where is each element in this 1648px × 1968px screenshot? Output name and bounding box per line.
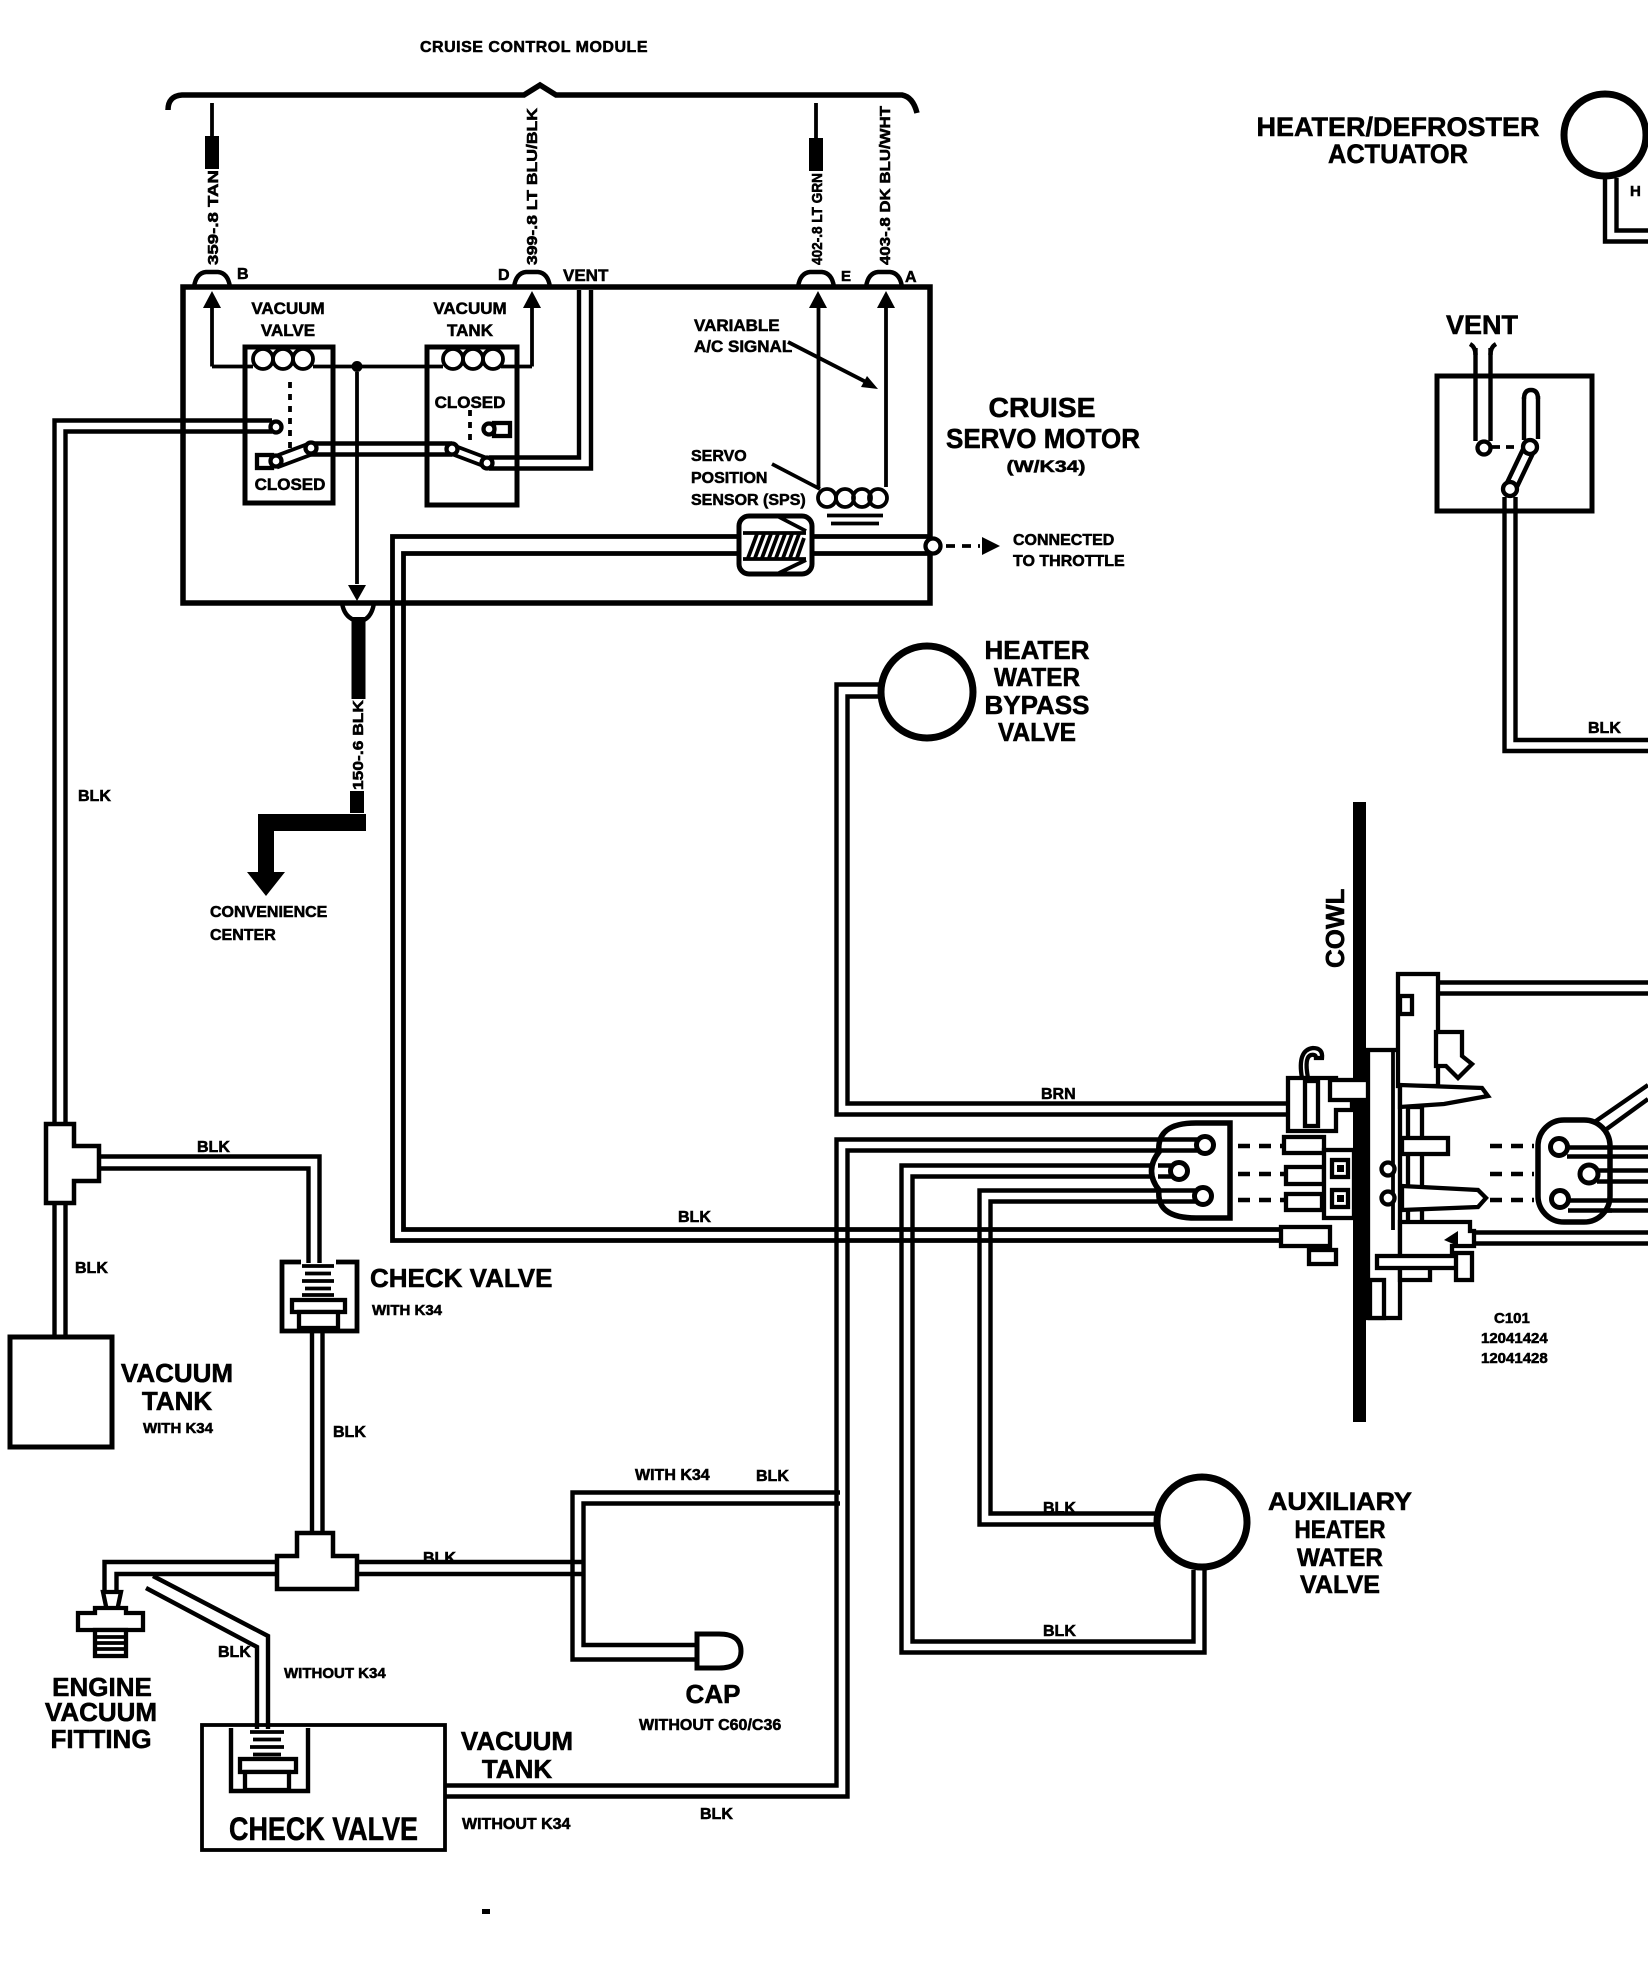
svg-text:WITHOUT K34: WITHOUT K34 (462, 1816, 571, 1833)
svg-text:BLK: BLK (678, 1209, 711, 1226)
svg-text:399-.8 LT BLU/BLK: 399-.8 LT BLU/BLK (524, 108, 541, 265)
svg-text:TANK: TANK (142, 1386, 213, 1416)
svg-text:BLK: BLK (1588, 720, 1621, 737)
svg-text:VACUUM: VACUUM (121, 1358, 233, 1388)
svg-text:TO THROTTLE: TO THROTTLE (1013, 553, 1125, 570)
svg-text:TANK: TANK (447, 321, 494, 340)
svg-text:(W/K34): (W/K34) (1007, 457, 1086, 476)
svg-text:VALVE: VALVE (261, 321, 315, 340)
svg-text:C101: C101 (1494, 1310, 1530, 1327)
svg-text:CRUISE: CRUISE (989, 392, 1096, 423)
svg-text:150-.6 BLK: 150-.6 BLK (350, 700, 367, 790)
svg-text:HEATER: HEATER (1295, 1516, 1386, 1544)
svg-text:WITH K34: WITH K34 (372, 1302, 443, 1319)
svg-text:H: H (1630, 183, 1641, 200)
svg-text:CHECK VALVE: CHECK VALVE (370, 1263, 553, 1293)
svg-text:VENT: VENT (1446, 310, 1519, 340)
svg-text:ACTUATOR: ACTUATOR (1328, 139, 1468, 169)
svg-text:CONVENIENCE: CONVENIENCE (210, 904, 328, 921)
svg-text:CHECK VALVE: CHECK VALVE (229, 1811, 418, 1847)
svg-text:BLK: BLK (333, 1424, 366, 1441)
svg-text:BLK: BLK (218, 1644, 251, 1661)
svg-text:BLK: BLK (700, 1806, 733, 1823)
svg-text:WATER: WATER (994, 662, 1080, 692)
svg-text:403-.8 DK BLU/WHT: 403-.8 DK BLU/WHT (877, 106, 894, 265)
svg-text:B: B (237, 266, 249, 283)
svg-text:VARIABLE: VARIABLE (694, 316, 780, 335)
svg-text:BLK: BLK (1043, 1623, 1076, 1640)
svg-text:BLK: BLK (75, 1260, 108, 1277)
svg-text:BLK: BLK (756, 1468, 789, 1485)
svg-text:VACUUM: VACUUM (461, 1726, 573, 1756)
svg-text:HEATER/DEFROSTER: HEATER/DEFROSTER (1256, 112, 1539, 142)
svg-text:VALVE: VALVE (1300, 1571, 1380, 1599)
svg-text:VALVE: VALVE (998, 717, 1076, 747)
svg-text:BLK: BLK (1043, 1500, 1076, 1517)
svg-text:BLK: BLK (78, 788, 111, 805)
svg-text:CONNECTED: CONNECTED (1013, 532, 1114, 549)
svg-text:VACUUM: VACUUM (251, 299, 324, 318)
svg-text:A/C SIGNAL: A/C SIGNAL (694, 337, 792, 356)
svg-text:COWL: COWL (1320, 888, 1350, 968)
svg-text:BLK: BLK (423, 1550, 456, 1567)
svg-text:12041424: 12041424 (1481, 1330, 1548, 1347)
svg-text:VACUUM: VACUUM (433, 299, 506, 318)
svg-text:FITTING: FITTING (50, 1724, 151, 1754)
svg-text:CLOSED: CLOSED (435, 393, 506, 412)
svg-text:CAP: CAP (686, 1679, 741, 1709)
svg-text:359-.8 TAN: 359-.8 TAN (205, 170, 222, 265)
svg-text:CRUISE CONTROL MODULE: CRUISE CONTROL MODULE (420, 39, 648, 56)
svg-text:E: E (841, 268, 851, 285)
svg-text:HEATER: HEATER (985, 635, 1090, 665)
svg-text:BRN: BRN (1041, 1086, 1076, 1103)
svg-text:SERVO MOTOR: SERVO MOTOR (946, 423, 1140, 454)
svg-text:WATER: WATER (1297, 1544, 1383, 1572)
svg-text:D: D (498, 267, 510, 284)
svg-text:WITH K34: WITH K34 (635, 1467, 710, 1484)
svg-text:WITH K34: WITH K34 (143, 1420, 214, 1437)
svg-text:402-.8 LT GRN: 402-.8 LT GRN (809, 173, 826, 265)
svg-text:VACUUM: VACUUM (45, 1697, 157, 1727)
svg-text:CLOSED: CLOSED (255, 475, 326, 494)
svg-text:AUXILIARY: AUXILIARY (1268, 1488, 1412, 1516)
svg-text:SENSOR (SPS): SENSOR (SPS) (691, 492, 806, 509)
svg-text:WITHOUT C60/C36: WITHOUT C60/C36 (639, 1717, 781, 1734)
svg-text:VENT: VENT (563, 266, 609, 285)
svg-text:A: A (905, 269, 917, 286)
svg-text:BLK: BLK (197, 1139, 230, 1156)
svg-text:WITHOUT K34: WITHOUT K34 (284, 1665, 386, 1682)
svg-text:SERVO: SERVO (691, 448, 747, 465)
svg-text:POSITION: POSITION (691, 470, 767, 487)
svg-text:TANK: TANK (482, 1754, 553, 1784)
svg-text:12041428: 12041428 (1481, 1350, 1548, 1367)
svg-text:BYPASS: BYPASS (985, 690, 1090, 720)
svg-text:CENTER: CENTER (210, 927, 276, 944)
